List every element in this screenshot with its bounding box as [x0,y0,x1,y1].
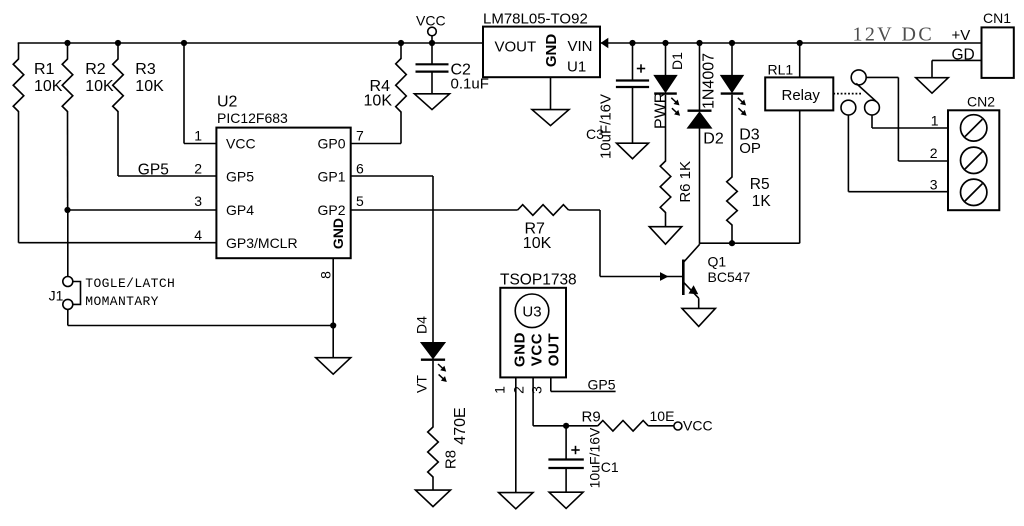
ground below R6 [649,227,681,245]
svg-text:C1: C1 [601,459,619,475]
ground below CN1 [916,78,949,94]
wire R9 to VCC terminal [648,425,674,427]
svg-text:VCC: VCC [683,418,713,434]
svg-text:GP3/MCLR: GP3/MCLR [226,235,298,251]
svg-text:CN2: CN2 [967,93,995,109]
svg-text:R5: R5 [750,176,770,193]
resistor R3 [113,59,124,112]
led D3 OP [731,43,733,75]
svg-text:GP0: GP0 [317,136,345,152]
svg-text:10K: 10K [523,235,552,252]
relay switch NO contact [865,100,880,115]
svg-text:10uF/16V: 10uF/16V [598,94,615,159]
diode D2 1N4007 [699,43,701,111]
ground below U1 [532,110,569,126]
node pin8/J1 junction [330,322,336,328]
wire R1 top [18,43,20,60]
wire U2 pin 8 GND [332,258,334,358]
wire R7 to Q1 base [569,209,601,211]
svg-text:D2: D2 [703,131,724,148]
node junction on VCC bus at x=401 [398,40,404,46]
svg-text:Q1: Q1 [708,253,727,269]
relay RL1 [799,43,801,77]
ground below U2 pin 8 [316,358,351,375]
svg-text:1: 1 [931,113,939,129]
svg-text:U2: U2 [217,94,238,111]
svg-text:3: 3 [194,193,202,209]
wire TSOP GND pin 1 [515,377,517,492]
svg-text:10uF/16V: 10uF/16V [587,427,603,488]
svg-text:4: 4 [194,227,202,243]
node junction on VCC bus at x=67.5 [64,40,70,46]
relay actuation dotted link [833,93,861,95]
wire TSOP VCC pin 2 [532,377,534,425]
node junction on VCC bus at x=118 [115,40,121,46]
svg-text:PIC12F683: PIC12F683 [217,110,288,126]
wire TSOP OUT pin 3 to GP5 [550,377,552,391]
resistor R8 470E [428,427,439,477]
svg-text:VIN: VIN [568,38,593,55]
ground below C3 [617,143,649,159]
wire VCC to pin 1 [183,43,185,144]
wire top 12V bus right [600,42,982,44]
ir receiver U3 TSOP1738 [500,288,566,378]
node junction on 12V bus at x=732 [729,40,735,46]
relay switch arm [856,83,876,101]
svg-text:10K: 10K [85,78,114,95]
jumper J1 [63,277,73,287]
svg-text:Relay: Relay [782,87,821,104]
svg-text:BC547: BC547 [708,269,751,285]
wire R2 top [67,43,69,60]
screw terminal CN2-2 [961,147,987,173]
svg-text:VCC: VCC [529,333,546,366]
svg-text:5: 5 [356,193,364,209]
screw terminal CN2-1 [961,115,987,141]
svg-text:2: 2 [194,161,202,177]
connector CN1 [982,27,1014,78]
svg-text:2: 2 [930,145,938,161]
svg-text:3: 3 [529,386,545,394]
svg-text:J1: J1 [49,288,64,304]
svg-text:2: 2 [511,386,527,394]
svg-text:OUT: OUT [546,333,563,366]
svg-text:+V: +V [952,27,971,44]
wire pin 5 GP2 to R7 [351,209,518,211]
capacitor C2 0.1uF [431,43,433,64]
resistor R5 1K [727,177,738,225]
svg-text:8: 8 [318,271,334,279]
node C1 junction [563,423,569,429]
resistor R4 [396,59,407,113]
wire NO contact to CN2 pin1 [871,115,873,128]
wire J1 to ground rail [67,309,69,325]
wire CN1 GD to ground [932,59,982,61]
svg-text:GP4: GP4 [226,202,254,218]
svg-text:GND: GND [330,218,346,249]
svg-text:R6 1K: R6 1K [677,161,694,203]
svg-text:R3: R3 [135,61,156,78]
capacitor C1 10uF/16V [565,426,567,460]
svg-text:VOUT: VOUT [495,39,537,56]
ground below Q1 emitter [682,308,715,326]
wire R4 top [400,43,402,59]
svg-text:10K: 10K [364,92,393,109]
led D4 VT [421,343,445,359]
svg-text:10E: 10E [650,408,675,424]
svg-text:1N4007: 1N4007 [701,53,718,109]
svg-text:OP: OP [739,140,761,157]
svg-text:R8: R8 [442,450,459,469]
wire GP4 pin 3 [68,209,217,211]
svg-text:RL1: RL1 [768,62,794,78]
node R2/GP4 junction [64,207,70,213]
ground below TSOP pin1 [499,493,533,509]
ground below C2 [414,94,449,110]
svg-text:PWR: PWR [653,92,670,129]
wire pin 6 GP1 to D4 [351,175,433,177]
ground below R8 [416,490,451,507]
svg-text:D4: D4 [414,316,430,334]
svg-text:1: 1 [492,386,508,394]
resistor R6 1K [660,161,671,213]
wire U1 GND pin [550,77,552,109]
svg-text:12V DC: 12V DC [853,23,935,45]
node R5/relay/collector junction [729,240,735,246]
svg-text:GND: GND [512,332,529,367]
node junction on 12V bus at x=699.5 [696,40,702,46]
svg-text:D1: D1 [669,52,685,70]
svg-text:MOMANTARY: MOMANTARY [85,294,159,309]
wire R2 to J1 [67,111,69,210]
svg-text:U1: U1 [567,59,586,76]
svg-text:6: 6 [356,161,364,177]
wire R3 top [117,43,119,60]
arrowhead Q1 base [660,272,669,281]
node junction on VCC bus at x=432 [429,40,435,46]
relay switch NC contact [841,100,856,115]
svg-text:LM78L05-TO92: LM78L05-TO92 [483,11,588,28]
svg-text:1K: 1K [752,193,772,210]
svg-text:VCC: VCC [226,136,256,152]
transistor Q1 BC547 [682,260,685,296]
wire common to CN2 pin2 [866,76,898,78]
svg-text:10K: 10K [34,78,63,95]
node junction on 12V bus at x=632.5 [629,40,635,46]
node junction on 12V bus at x=799.7 [797,40,803,46]
wire R3 to GP5 pin 2 [117,111,119,176]
resistor R2 [62,59,73,112]
svg-text:R1: R1 [34,61,55,78]
screw terminal CN2-3 [961,179,987,205]
svg-text:GP5: GP5 [138,161,169,178]
led D1 PWR [665,43,667,75]
svg-text:VT: VT [414,375,430,393]
ground below C1 [549,492,583,508]
wire NC contact to CN2 pin3 [847,115,849,192]
svg-text:R2: R2 [85,61,106,78]
svg-text:GND: GND [543,34,560,68]
svg-text:U3: U3 [522,303,541,320]
resistor R7 10K [518,205,569,216]
svg-text:3: 3 [930,177,938,193]
relay switch common contact [851,70,866,85]
wire R1 to GP3/MCLR pin 4 [18,111,20,243]
node VCC terminal [428,27,437,36]
svg-text:R9: R9 [582,408,601,425]
resistor R9 10E [598,421,648,432]
svg-text:GP1: GP1 [317,169,345,185]
svg-text:TOGLE/LATCH: TOGLE/LATCH [85,276,175,291]
svg-text:GP5: GP5 [226,169,254,185]
svg-text:GP5: GP5 [588,377,616,393]
connector CN2 [948,110,999,210]
regulator U1 LM78L05-TO92 [483,27,600,78]
node junction on VCC bus at x=184 [181,40,187,46]
node VCC terminal [674,422,682,430]
resistor R1 [13,59,24,112]
wire relay coil to collector node [799,110,801,243]
svg-text:7: 7 [356,128,364,144]
svg-text:TSOP1738: TSOP1738 [500,272,577,289]
node junction on 12V bus at x=665.5 [662,40,668,46]
svg-text:GP2: GP2 [317,202,345,218]
arrowhead into VIN [601,38,609,48]
ic U2 PIC12F683 [216,128,350,259]
wire pin 7 GP0 to R4 [400,112,402,144]
svg-text:10K: 10K [135,78,164,95]
svg-text:1: 1 [194,128,202,144]
capacitor C3 10uF/16V [632,43,634,81]
svg-text:VCC: VCC [416,13,446,29]
svg-text:470E: 470E [452,407,469,444]
wire top VCC bus left [18,42,483,44]
svg-text:CN1: CN1 [983,10,1011,26]
